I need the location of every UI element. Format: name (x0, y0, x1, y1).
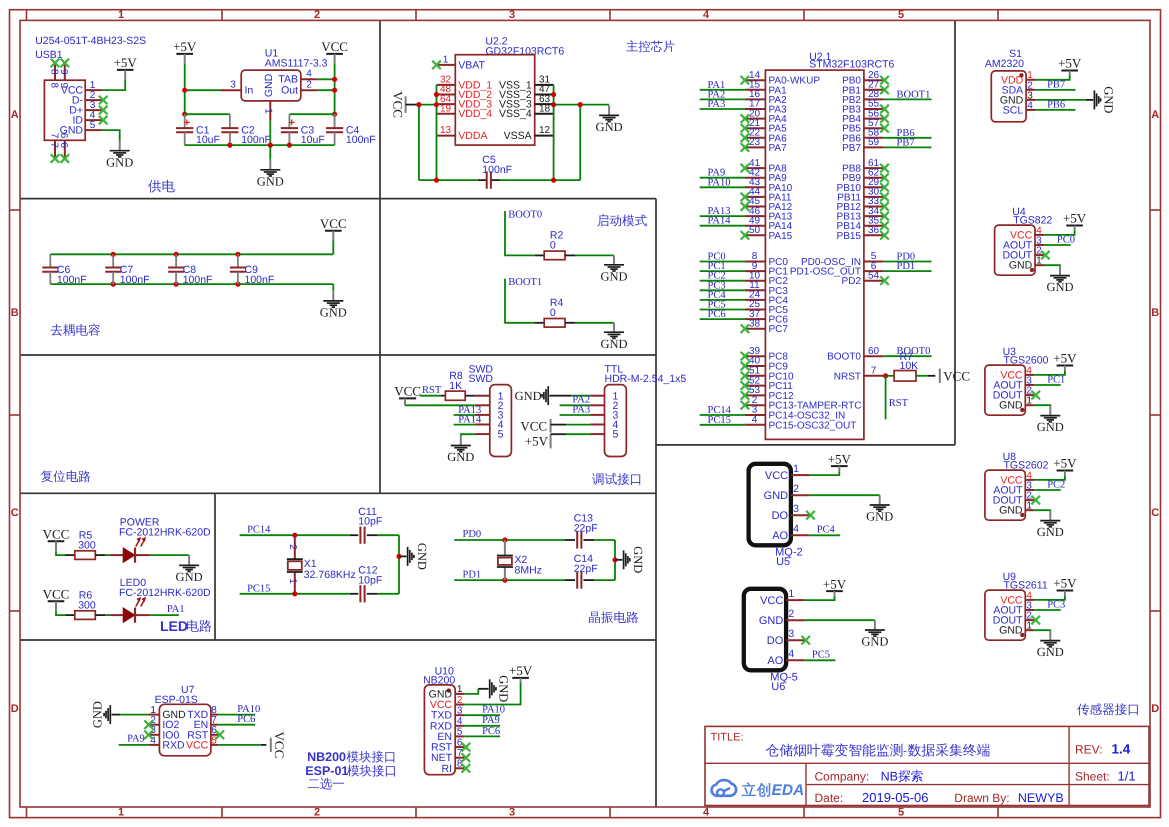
svg-text:GND: GND (60, 125, 84, 137)
no-connect PB3 (880, 105, 889, 114)
power flag +5V (S1) (1058, 56, 1082, 76)
svg-text:VCC: VCC (760, 595, 783, 607)
no-connect PA4 (741, 114, 750, 123)
svg-text:B: B (11, 307, 19, 319)
wire net PA9 (ESP RXD) (119, 744, 149, 746)
net label PA2 (708, 89, 726, 100)
ground GND (U3) (1037, 406, 1064, 435)
wire net RST to R8 (420, 395, 446, 397)
svg-text:2: 2 (793, 483, 799, 495)
wire R8 to SWD pin1 (465, 395, 475, 397)
wire net PB6 (883, 137, 931, 139)
capacitor C7 100nF (105, 254, 149, 286)
wire net PC0 (700, 261, 745, 263)
wire net PD1 (454, 578, 565, 583)
svg-text:GND: GND (600, 269, 627, 283)
wire U4 VCC to +5V (1044, 230, 1075, 235)
svg-text:7: 7 (871, 366, 877, 377)
wire U9 GND (1034, 629, 1050, 632)
svg-text:1: 1 (788, 588, 794, 600)
title block Drawn By NEWYB (954, 791, 1063, 805)
U2.1 pin 11 PC3 (745, 280, 788, 297)
svg-text:+5V: +5V (114, 55, 138, 70)
crystal X2 8MHz (497, 540, 542, 580)
svg-text:PC15: PC15 (247, 583, 270, 594)
regulator U1 AMS1117-3.3 (221, 47, 328, 120)
svg-text:PC15-OSC32_OUT: PC15-OSC32_OUT (769, 420, 857, 431)
svg-text:GND: GND (999, 400, 1023, 412)
svg-text:PC4: PC4 (817, 525, 836, 536)
no-connect PC7 (741, 324, 750, 333)
U2.1 pin 30 PB11 (837, 187, 883, 204)
svg-text:5: 5 (90, 120, 96, 131)
svg-text:5: 5 (898, 806, 904, 818)
svg-text:59: 59 (868, 137, 880, 148)
net label PD0 (897, 252, 916, 263)
wire net PC2 (U8) (1034, 489, 1061, 491)
ground GND (BOOT1) (600, 323, 627, 351)
net label PC2 (708, 271, 726, 282)
svg-text:U5: U5 (776, 556, 790, 568)
gas sensor module U5 MQ-2 (749, 463, 810, 568)
wire R7 to VCC (916, 375, 935, 377)
resistor R2 0 (544, 230, 565, 260)
svg-text:GND: GND (596, 120, 623, 134)
wire net PC4 (U5) (809, 534, 840, 536)
net label BOOT1 (508, 277, 542, 288)
net label PA10 (708, 177, 731, 188)
wire NB200 GND (464, 689, 488, 694)
svg-text:VCC: VCC (394, 384, 421, 399)
U2.1 pin 39 PC8 (745, 346, 788, 363)
wire net PC14 (700, 414, 745, 416)
svg-text:36: 36 (868, 225, 880, 236)
no-connect PC8 (741, 352, 750, 361)
U2.1 pin 10 PC2 (745, 270, 788, 287)
capacitor C12 10pF (350, 565, 399, 603)
U2.1 pin 36 PB15 (837, 225, 884, 242)
net label PC15 (247, 583, 270, 594)
svg-text:BOOT0: BOOT0 (827, 352, 861, 363)
U2.1 pin 26 PB0 (842, 70, 883, 87)
no-connect PC12 (741, 391, 750, 400)
svg-text:PC5: PC5 (812, 650, 830, 661)
title block Date 2019-05-06 (815, 790, 929, 805)
power flag +5V (TTL pin5) (525, 433, 551, 448)
svg-text:100nF: 100nF (241, 134, 271, 146)
svg-text:C: C (11, 507, 19, 519)
net label PC5 (708, 300, 726, 311)
U2.1 pin 6 PD1-OSC_OUT (790, 261, 883, 278)
svg-text:23: 23 (749, 137, 761, 148)
label 启动模式 (597, 214, 646, 226)
svg-text:54: 54 (868, 270, 880, 281)
wire ESP pin1 (112, 714, 149, 716)
wire net PA14 (SWD pin4) (454, 424, 475, 426)
U2.1 pin 34 PB13 (837, 206, 884, 223)
svg-text:+5V: +5V (525, 433, 549, 448)
U2.1 pin 28 PB2 (842, 89, 883, 106)
title block Sheet 1/1 (1075, 769, 1136, 784)
svg-text:1: 1 (118, 9, 124, 21)
svg-text:GND: GND (866, 510, 893, 524)
wire net PA14 (700, 225, 745, 227)
U2.1 pin 55 PB3 (842, 99, 883, 116)
wire net PA1 (700, 89, 745, 91)
svg-text:2: 2 (314, 9, 320, 21)
svg-text:1: 1 (457, 684, 463, 695)
wire decoupling bottom rail (50, 282, 333, 291)
svg-text:VCC: VCC (765, 470, 788, 482)
wire TTL pin1 (549, 395, 590, 397)
no-connect PB4 (880, 114, 889, 123)
svg-text:10pF: 10pF (358, 516, 382, 528)
svg-text:GND: GND (176, 570, 203, 584)
wire net PB7 (883, 146, 931, 148)
svg-text:0: 0 (550, 240, 556, 252)
no-connect PC9 (741, 362, 750, 371)
no-connect NB200 NET (462, 753, 471, 762)
power flag VCC (ESP) (271, 732, 287, 759)
svg-text:VDD_4: VDD_4 (458, 108, 492, 120)
no-connect NB200 RST (462, 743, 471, 752)
power flag +5V (U8) (1053, 456, 1077, 476)
no-connect PA7 (741, 143, 750, 152)
svg-text:32.768KHz: 32.768KHz (304, 569, 356, 581)
U2.1 pin 46 PA13 (745, 206, 793, 223)
wire net PC6 (700, 318, 745, 320)
U2.1 pin 8 PC0 (745, 251, 788, 268)
no-connect PA0-WKUP (741, 76, 750, 85)
net label PC1 (708, 261, 726, 272)
svg-text:AM2320: AM2320 (985, 58, 1024, 70)
net label PC1 (U3) (1047, 374, 1065, 385)
svg-text:PC6: PC6 (482, 726, 500, 737)
svg-text:Date:: Date: (815, 791, 844, 805)
wire U6 GND (804, 619, 875, 621)
power flag +5V (U4) (1063, 211, 1087, 231)
no-connect PB10 (880, 183, 889, 192)
svg-text:BOOT1: BOOT1 (897, 89, 931, 100)
svg-text:1/1: 1/1 (1118, 769, 1136, 784)
net label PC6 (ESP) (237, 714, 255, 725)
net label PA14 (708, 216, 732, 227)
svg-text:9: 9 (58, 69, 69, 75)
wire VCC to R6 (56, 611, 75, 615)
svg-text:PC1: PC1 (1047, 374, 1065, 385)
capacitor C9 100nF (230, 254, 274, 286)
svg-text:HDR-M-2.54_1x5: HDR-M-2.54_1x5 (605, 373, 687, 385)
capacitor C8 100nF (168, 254, 212, 286)
svg-text:VCC: VCC (272, 732, 287, 759)
svg-text:GND: GND (861, 635, 888, 649)
svg-text:5: 5 (498, 429, 504, 441)
svg-text:+5V: +5V (1053, 576, 1077, 591)
wire net PC3 (700, 289, 745, 291)
no-connect U9 DOUT (1031, 616, 1040, 625)
wire net PA13 (SWD pin3) (454, 414, 475, 416)
svg-text:PB15: PB15 (837, 231, 862, 242)
wire ground rail under regulator (185, 120, 335, 159)
U2.1 pin 43 PA10 (745, 177, 793, 194)
wire net PA13 (700, 215, 745, 217)
no-connect PA15 (741, 231, 750, 240)
U2.1 pin 42 PA9 (745, 167, 787, 184)
svg-text:4: 4 (703, 9, 710, 21)
U2.1 pin 29 PB10 (837, 177, 884, 194)
wire net PC2 (700, 280, 745, 282)
svg-text:In: In (245, 85, 254, 97)
power flag VCC (U2.2) (391, 91, 419, 118)
svg-text:DO: DO (772, 510, 789, 522)
net label PA9 (708, 168, 726, 179)
net label PC5 (U6) (812, 650, 830, 661)
net label PC14 (247, 525, 271, 536)
net label PA10 (NB200) (482, 705, 505, 716)
U2.1 pin 49 PA14 (745, 215, 793, 232)
title block frame (705, 726, 1149, 805)
svg-text:Company:: Company: (815, 770, 870, 784)
U2.1 pin 40 PC9 (745, 356, 788, 373)
wire S1 GND (1035, 99, 1086, 101)
wire net PD1 (883, 270, 931, 272)
wire BOOT0 to R2 (505, 211, 544, 255)
svg-text:+5V: +5V (173, 39, 197, 54)
wire ESP VCC (218, 744, 266, 746)
svg-text:PA10: PA10 (708, 177, 731, 188)
svg-text:GND: GND (1009, 260, 1033, 272)
net label PC14 (708, 405, 732, 416)
svg-text:VCC: VCC (43, 526, 70, 541)
svg-text:100nF: 100nF (346, 134, 376, 146)
U2.1 pin 59 PB7 (842, 137, 883, 154)
net label PC2 (U8) (1047, 479, 1065, 490)
svg-text:300: 300 (78, 599, 96, 611)
svg-text:60: 60 (868, 346, 880, 357)
svg-text:+5V: +5V (1053, 456, 1077, 471)
ground GND (U6) (861, 620, 888, 648)
wire BOOT1 to R4 (505, 279, 544, 323)
U2.1 pin 14 PA0-WKUP (745, 70, 820, 87)
svg-text:PB7: PB7 (1047, 79, 1065, 90)
svg-text:VCC: VCC (520, 418, 547, 433)
wire net PA9 (NB200) (464, 725, 500, 727)
svg-text:SWD: SWD (469, 373, 494, 385)
sensor S1 AM2320 (985, 48, 1035, 122)
svg-text:10uF: 10uF (196, 134, 220, 146)
capacitor C4 100nF (326, 124, 376, 146)
wire SWD pin5 to GND (461, 434, 475, 436)
section divider lines (20, 20, 955, 807)
label 晶振电路 (589, 611, 638, 623)
ground GND (U8) (1037, 511, 1064, 540)
svg-text:GND: GND (497, 675, 511, 702)
net label PA14 (458, 414, 482, 425)
svg-text:38: 38 (749, 318, 761, 329)
ground GND (BOOT0) (600, 255, 627, 283)
no-connect PB13 (880, 212, 889, 221)
svg-text:FC-2012HRK-620D: FC-2012HRK-620D (119, 587, 211, 599)
U2.1 pin 44 PA11 (745, 187, 792, 204)
svg-text:PC14: PC14 (247, 525, 271, 536)
U2.1 pin 37 PC6 (745, 309, 788, 326)
svg-text:PA14: PA14 (708, 216, 732, 227)
U2.1 pin 33 PB12 (837, 196, 884, 213)
wire R5 to LED POWER (95, 554, 123, 556)
crystal X1 32.768KHz (287, 535, 356, 594)
net label PB7 (897, 137, 915, 148)
svg-text:RXD: RXD (162, 739, 185, 751)
label 主控芯片 (626, 40, 674, 52)
svg-text:Drawn By:: Drawn By: (954, 791, 1009, 805)
svg-text:GND: GND (1037, 420, 1064, 434)
no-connect marks on USB1 (51, 59, 108, 163)
ground GND (USB) (106, 141, 133, 170)
module U10 NB200 (423, 665, 464, 775)
svg-text:4: 4 (457, 716, 463, 727)
svg-text:1: 1 (1026, 621, 1032, 632)
net label PC3 (U9) (1047, 599, 1065, 610)
no-connect PC11 (741, 381, 750, 390)
wire VSS rail (551, 85, 609, 180)
ground GND (LED POWER) (176, 555, 203, 584)
svg-text:2: 2 (457, 695, 463, 706)
svg-text:PA9: PA9 (482, 715, 500, 726)
net label PC0 (U4) (1057, 234, 1075, 245)
svg-text:AMS1117-3.3: AMS1117-3.3 (265, 58, 328, 70)
svg-text:3: 3 (509, 806, 515, 818)
U2.1 pin 60 BOOT0 (827, 346, 883, 363)
U2.1 pin 56 PB4 (842, 108, 883, 125)
wire USB VCC to +5V (102, 80, 125, 91)
svg-text:VCC: VCC (186, 739, 209, 751)
svg-text:ESP-01: ESP-01 (305, 764, 348, 778)
wire net RST (885, 376, 887, 420)
wire R6 to LED0 (95, 614, 123, 616)
wire U6 VCC to +5V (804, 596, 834, 600)
capacitor C6 100nF (42, 254, 86, 286)
power flag VCC (regulator output) (321, 39, 348, 63)
wire U9 VCC to +5V (1034, 595, 1065, 600)
svg-text:BOOT0: BOOT0 (508, 209, 542, 220)
no-connect ESP IO0 (144, 731, 153, 740)
wire net PC5 (U6) (804, 659, 835, 661)
wire NB200 VCC to +5V (464, 682, 520, 705)
ground flag GND (S1) (1086, 86, 1116, 113)
U2.1 pin 51 PC10 (745, 366, 794, 383)
power flag +5V (USB) (114, 55, 138, 79)
U2.1 pin 61 PB8 (842, 158, 883, 175)
wire R2 to GND (565, 254, 614, 256)
svg-text:SCL: SCL (1003, 104, 1024, 116)
svg-text:PA1: PA1 (167, 604, 185, 615)
U2.1 pin 5 PD0-OSC_IN (801, 251, 883, 268)
svg-text:GND: GND (764, 490, 789, 502)
net label BOOT0 (897, 346, 931, 357)
svg-text:EDA: EDA (772, 782, 805, 799)
svg-text:A: A (11, 109, 19, 121)
wire net PD0 (454, 537, 565, 542)
U2.1 pin 22 PA6 (745, 128, 787, 145)
net label PD1 (463, 570, 482, 581)
svg-text:+5V: +5V (1063, 211, 1087, 226)
U2.1 pin 3 PC14-OSC32_IN (745, 405, 845, 422)
svg-text:1.4: 1.4 (1112, 742, 1131, 757)
svg-text:3: 3 (457, 705, 463, 716)
net label PA10 (ESP) (237, 704, 260, 715)
wire C3-C4 top rail (289, 114, 334, 128)
wire net BOOT1 (883, 98, 931, 100)
wire net PC0 (U4) (1044, 244, 1071, 246)
title text 仓储烟叶霉变智能监测-数据采集终端 (766, 743, 990, 757)
wire net PA1 (LED0) (135, 614, 179, 616)
svg-text:D: D (11, 703, 19, 715)
no-connect PB12 (880, 202, 889, 211)
no-connect PB5 (880, 124, 889, 133)
LED LED0 FC-2012HRK-620D (119, 577, 211, 623)
svg-text:2019-05-06: 2019-05-06 (862, 790, 929, 805)
wire VDD rail (416, 85, 439, 180)
wire net PC3 (U9) (1034, 609, 1061, 611)
no-connect PD2 (880, 276, 889, 285)
U2.1 pin 62 PB9 (842, 167, 883, 184)
svg-text:5: 5 (457, 727, 463, 738)
label 供电 (148, 180, 175, 193)
header SWD (469, 363, 512, 456)
net label PA1 (LED0) (167, 604, 185, 615)
capacitor C11 10pF (350, 506, 399, 544)
svg-text:PB7: PB7 (897, 137, 915, 148)
label NB200/ESP-01 note (305, 750, 395, 790)
svg-text:2: 2 (314, 806, 320, 818)
svg-text:VCC: VCC (391, 91, 406, 118)
ground GND (U4) (1046, 266, 1073, 295)
wire U4 GND (1044, 264, 1060, 267)
power flag VCC (LED2) (43, 586, 70, 610)
MCU U2.1 STM32F103RCT6 (765, 51, 894, 440)
svg-text:B: B (1151, 307, 1159, 319)
svg-text:2: 2 (287, 544, 298, 550)
svg-text:GND: GND (515, 389, 542, 403)
svg-text:STM32F103RCT6: STM32F103RCT6 (809, 59, 894, 71)
resistor R7 10K (894, 351, 918, 381)
ground GND (U2.2) (596, 105, 623, 134)
svg-text:+5V: +5V (828, 451, 852, 466)
wire net PC14 (240, 533, 350, 538)
svg-text:GND: GND (320, 306, 347, 320)
no-connect PB9 (880, 173, 889, 182)
ground GND (decoupling) (320, 291, 347, 320)
svg-text:GND: GND (600, 337, 627, 351)
svg-text:0: 0 (550, 307, 556, 319)
svg-text:PC2: PC2 (1047, 479, 1065, 490)
no-connect U4 DOUT (1041, 251, 1050, 260)
no-connect NB200 RI (462, 764, 471, 773)
svg-text:4: 4 (306, 69, 312, 80)
no-connect PB0 (880, 76, 889, 85)
net label PA3 (708, 99, 726, 110)
svg-text:U6: U6 (771, 681, 785, 693)
svg-text:1: 1 (793, 463, 799, 475)
module U7 ESP-01S (149, 684, 219, 756)
svg-text:VCC: VCC (320, 216, 347, 231)
net label PA9 (NB200) (482, 715, 500, 726)
net label PC6 (NB200) (482, 726, 500, 737)
svg-text:PB6: PB6 (1047, 100, 1065, 111)
U2.1 pin 4 PC15-OSC32_OUT (745, 415, 856, 432)
U2.1 pin 54 PD2 (842, 270, 884, 287)
U2.1 pin 9 PC1 (745, 261, 788, 278)
